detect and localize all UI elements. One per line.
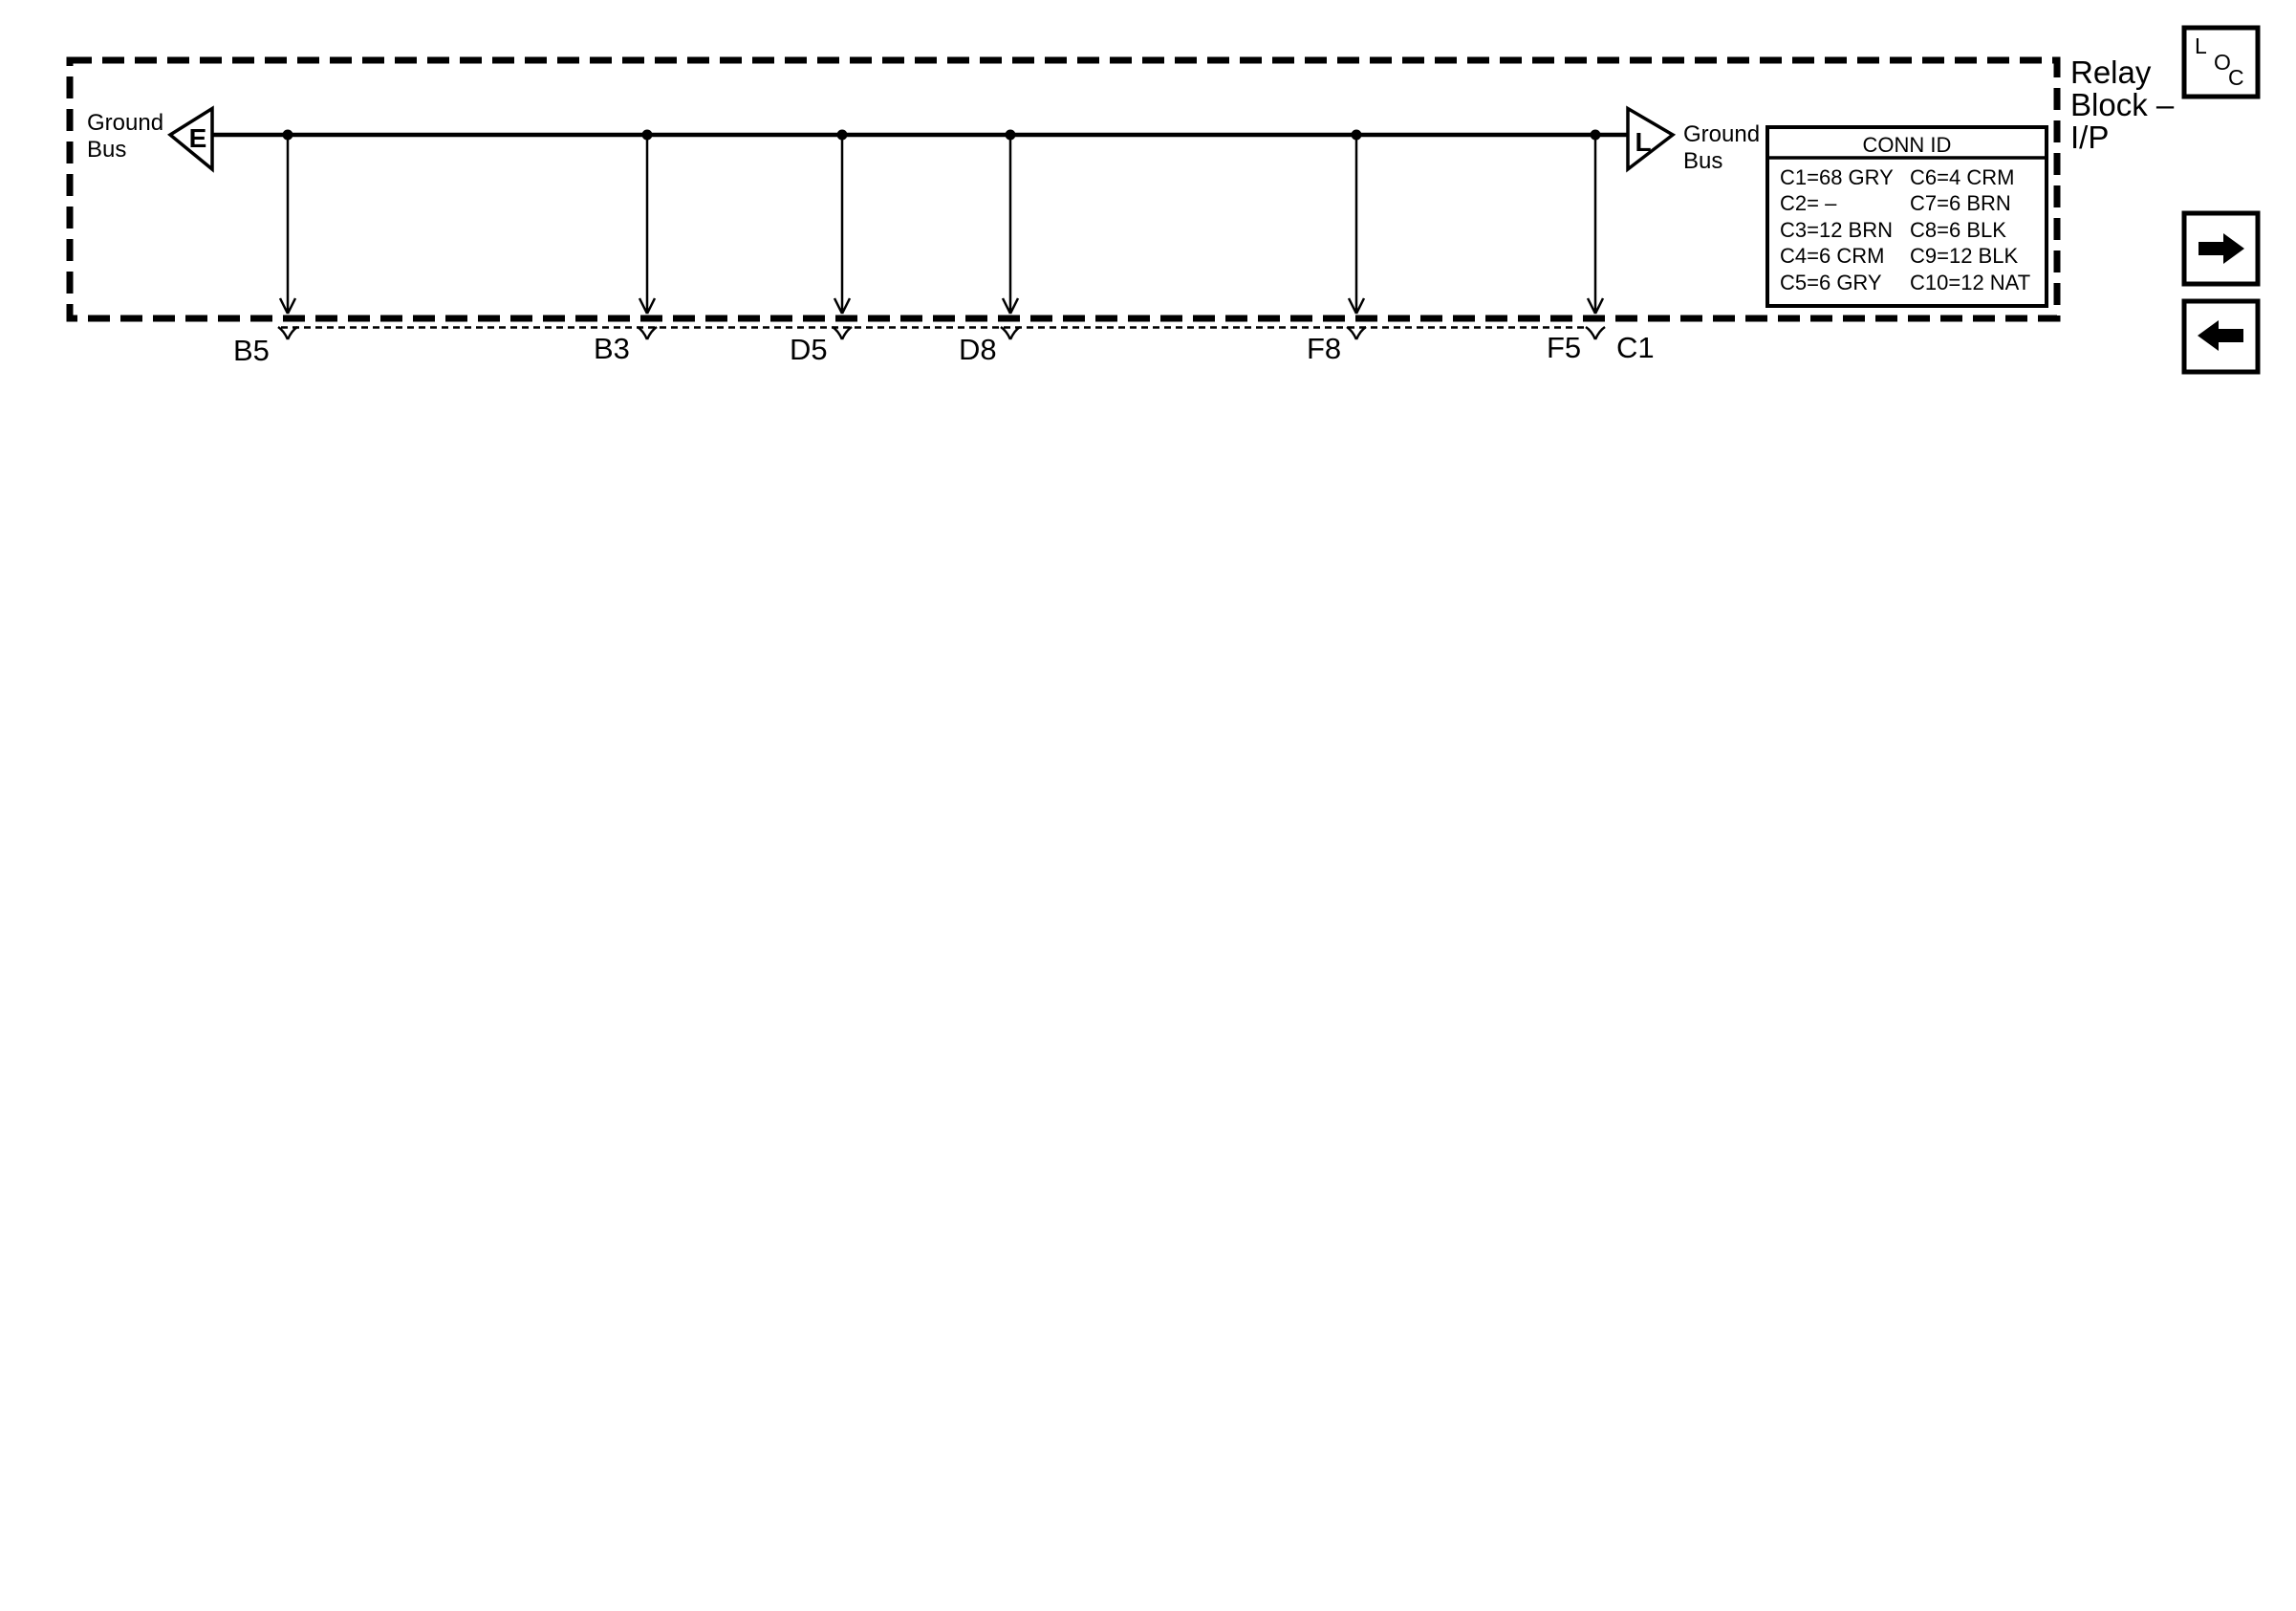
junction dot B3 bbox=[642, 130, 653, 141]
connector F5 bbox=[1586, 327, 1605, 339]
left arrow nav box bbox=[2184, 301, 2258, 372]
connector C1 row dashed line bbox=[281, 326, 1587, 328]
right arrow nav box bbox=[2184, 213, 2258, 284]
junction dot D5 bbox=[837, 130, 848, 141]
svg-text:B3: B3 bbox=[594, 332, 630, 365]
svg-text:C10=12 NAT: C10=12 NAT bbox=[1910, 271, 2030, 294]
connector D8 bbox=[1001, 327, 1020, 339]
svg-text:L: L bbox=[2195, 33, 2207, 58]
svg-text:C8=6 BLK: C8=6 BLK bbox=[1910, 218, 2006, 242]
svg-text:F8: F8 bbox=[1307, 332, 1341, 365]
svg-text:Block –: Block – bbox=[2070, 87, 2175, 122]
wire drop B3 bbox=[639, 137, 655, 314]
svg-text:D8: D8 bbox=[959, 333, 997, 366]
CONN ID table relay block bbox=[1767, 127, 2047, 306]
svg-text:Relay: Relay bbox=[2070, 54, 2152, 90]
svg-text:I/P: I/P bbox=[2070, 120, 2109, 155]
svg-text:C5=6 GRY: C5=6 GRY bbox=[1780, 271, 1882, 294]
ground bus wire bbox=[212, 133, 1628, 138]
ground bus terminal L triangle bbox=[1628, 109, 1673, 170]
svg-text:L: L bbox=[1635, 127, 1651, 157]
svg-text:C2= –: C2= – bbox=[1780, 191, 1837, 215]
ground bus terminal E triangle bbox=[170, 109, 212, 170]
connector F8 bbox=[1347, 327, 1366, 339]
wire drop D8 bbox=[1003, 137, 1018, 314]
wire drop B5 bbox=[280, 137, 295, 314]
junction dot D8 bbox=[1006, 130, 1016, 141]
svg-text:E: E bbox=[189, 123, 207, 153]
svg-text:C1: C1 bbox=[1616, 331, 1655, 364]
junction dot F5 bbox=[1591, 130, 1601, 141]
svg-text:C3=12 BRN: C3=12 BRN bbox=[1780, 218, 1893, 242]
connector D5 bbox=[833, 327, 852, 339]
svg-text:C1=68 GRY: C1=68 GRY bbox=[1780, 165, 1894, 189]
wire drop D5 bbox=[834, 137, 850, 314]
svg-text:C7=6 BRN: C7=6 BRN bbox=[1910, 191, 2011, 215]
svg-text:Bus: Bus bbox=[1683, 148, 1722, 174]
junction dot F8 bbox=[1352, 130, 1362, 141]
svg-text:Ground: Ground bbox=[1683, 121, 1760, 147]
svg-text:C9=12 BLK: C9=12 BLK bbox=[1910, 244, 2018, 268]
svg-text:C4=6 CRM: C4=6 CRM bbox=[1780, 244, 1884, 268]
svg-text:Ground: Ground bbox=[87, 110, 163, 136]
svg-text:C6=4 CRM: C6=4 CRM bbox=[1910, 165, 2014, 189]
junction dot B5 bbox=[283, 130, 293, 141]
relay block I/P dashed outline bbox=[70, 60, 2057, 318]
svg-text:B5: B5 bbox=[233, 334, 270, 367]
svg-text:F5: F5 bbox=[1547, 331, 1581, 364]
svg-text:Bus: Bus bbox=[87, 137, 126, 163]
wire drop F8 bbox=[1349, 137, 1364, 314]
connector B3 bbox=[638, 327, 657, 339]
wire drop F5 bbox=[1588, 137, 1603, 314]
svg-text:CONN ID: CONN ID bbox=[1863, 133, 1952, 157]
svg-text:C: C bbox=[2228, 65, 2244, 90]
svg-text:D5: D5 bbox=[790, 333, 828, 366]
connector B5 bbox=[278, 327, 297, 339]
LOC legend box bbox=[2184, 28, 2258, 97]
